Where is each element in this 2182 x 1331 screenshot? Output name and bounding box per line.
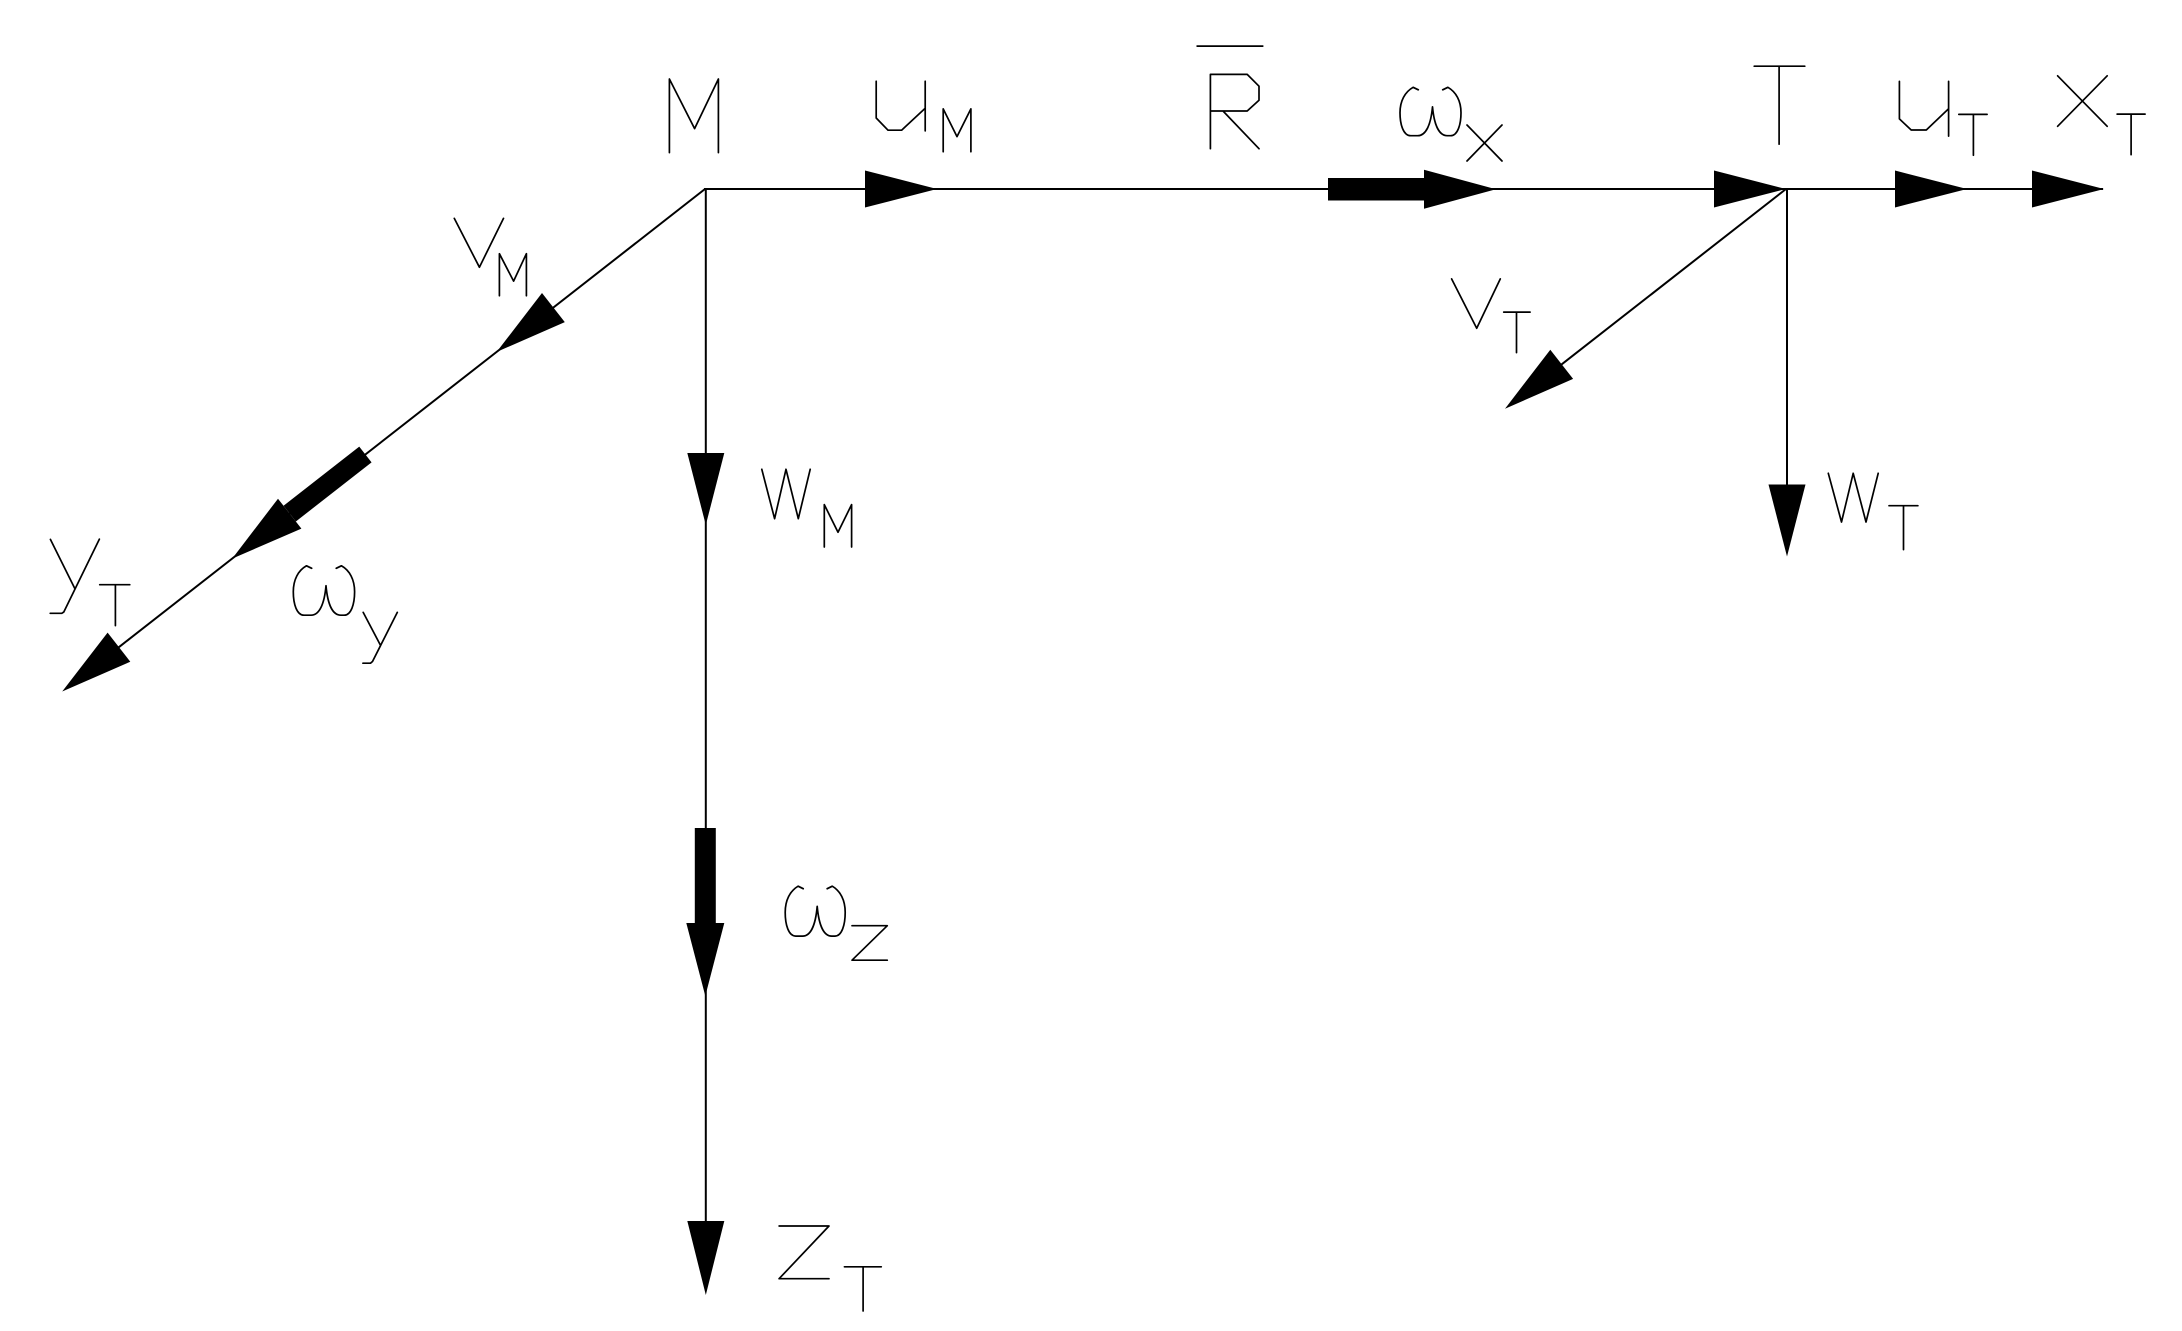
label omega_x : subscript x [1467, 125, 1502, 161]
label omega_y : omega [293, 566, 354, 615]
arrowhead u_T (right) [1895, 171, 1967, 208]
arrowhead at node T (right) [1714, 171, 1786, 208]
wire: diagonal axis M down-left to y_T [119, 189, 705, 647]
label u_T : subscript T [1959, 114, 1987, 155]
arrowhead z_T axis tip (down) [687, 1221, 724, 1295]
label u_M : subscript M [943, 109, 971, 152]
label x_T : subscript T [2117, 114, 2145, 155]
label u_T : u [1899, 81, 1948, 136]
thick arrow omega_x [1328, 178, 1424, 201]
arrowhead v_T (down-left) [1505, 350, 1573, 409]
label u_M : u [876, 81, 925, 131]
label z_T : subscript T [844, 1267, 881, 1311]
label v_T : subscript T [1504, 312, 1530, 353]
label omega_x : omega [1400, 87, 1461, 135]
thick arrow omega_y [290, 455, 366, 514]
label R overbar [1197, 45, 1264, 47]
label z_T : z [779, 1226, 829, 1279]
arrowhead x_T axis tip (right) [2032, 171, 2104, 208]
label omega_y : subscript y [363, 612, 397, 663]
arrowhead v_M (down-left) [497, 293, 565, 352]
label y_T : y [50, 539, 99, 613]
wire: diagonal axis T down-left to v_T [1561, 189, 1786, 365]
wire: vertical axis T down to w_T [1786, 189, 1788, 485]
wire: horizontal axis M-T-x_T [705, 188, 2103, 190]
label omega_z : omega [785, 886, 845, 936]
wire: vertical axis M down to z_T [705, 189, 707, 1223]
label T (point T) [1754, 66, 1805, 144]
label w_M : subscript M [824, 505, 851, 547]
label M (point M) [669, 79, 718, 153]
arrowhead w_T (down) [1769, 485, 1806, 557]
label x_T : x [2058, 76, 2108, 127]
label y_T : subscript T [100, 585, 130, 626]
thick arrow omega_z [695, 828, 716, 923]
label w_T : w [1828, 473, 1878, 522]
node M / origin junction [704, 188, 707, 190]
label w_M : w [762, 469, 810, 518]
label v_M : subscript M [499, 254, 526, 296]
label v_T : v [1452, 279, 1501, 328]
label omega_z : subscript z [852, 926, 887, 961]
arrowhead y_T axis tip (down-left) [62, 633, 130, 692]
arrowhead w_M (down) [687, 453, 724, 525]
label w_T : subscript T [1889, 506, 1918, 550]
label v_M : v [454, 218, 503, 267]
arrowhead u_M (right) [865, 171, 937, 208]
label R [1210, 74, 1259, 148]
